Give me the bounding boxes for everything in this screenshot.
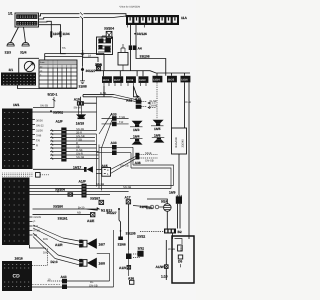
svg-text:B2: B2 [178,230,182,234]
connector 11C/1 [102,76,112,83]
amplifier pin stubs [30,216,42,237]
svg-text:GN-SB: GN-SB [145,160,154,163]
svg-text:1/10: 1/10 [146,206,153,210]
label 33/126 [134,32,147,36]
svg-text:A33: A33 [111,112,117,116]
top bus wire 1 [39,14,127,17]
svg-text:33/302: 33/302 [53,110,63,114]
wire B2 left [126,232,165,236]
DIN lead to CD [30,238,61,285]
svg-text:1104: 1104 [62,32,69,36]
wire B2 down into unit [173,234,190,240]
svg-text:16/9: 16/9 [169,191,176,195]
svg-text:5/1D-1: 5/1D-1 [48,93,58,97]
svg-text:11C/5: 11C/5 [168,78,175,81]
sensor circle symbol [24,61,34,71]
wire ignition to 1104 [39,25,66,54]
tweeter 16/9 [169,191,182,204]
svg-text:A36: A36 [128,276,134,280]
splice ticks on bus [80,12,83,19]
svg-text:16/8: 16/8 [99,262,106,266]
svg-text:31/36: 31/36 [36,130,43,133]
feed wire to 11C row [95,54,150,77]
svg-text:SN-SB: SN-SB [96,183,104,186]
svg-text:16/16: 16/16 [15,256,23,260]
connector 11C/8 [126,76,136,83]
top bus wire 2 [39,16,127,19]
control unit D5 [172,236,194,283]
svg-text:A1/F: A1/F [56,119,63,123]
svg-text:D2:3: D2:3 [51,260,58,264]
theft LED group [119,250,140,284]
svg-text:SN-SB: SN-SB [123,186,131,189]
svg-text:31/66: 31/66 [118,243,126,247]
svg-text:T-R: T-R [119,121,123,124]
amplifier 16/1 lower unit [2,173,33,245]
table 5/1D-1 [39,60,77,97]
svg-text:B+30: B+30 [78,206,85,209]
svg-text:33/204: 33/204 [104,27,114,31]
antenna mast box [118,53,128,66]
wire ignition to ground 31/3 [11,27,19,43]
svg-text:33/261: 33/261 [58,216,68,220]
connector 11C/4 [153,76,163,83]
svg-text:16/1: 16/1 [13,103,20,107]
ground 31/4 [20,42,29,54]
connector A37 [126,98,146,108]
svg-text:3/32: 3/32 [138,247,145,251]
drops below 11C row [104,83,146,86]
labels 23/22 3/32 [137,234,145,256]
wires amp to A1/P [30,186,82,195]
svg-text:GN-SB: GN-SB [120,165,129,168]
svg-text:31/88: 31/88 [79,85,87,89]
connector A1/P [79,180,87,198]
horn 9/24 [146,199,171,211]
svg-text:A32: A32 [126,98,132,102]
svg-text:SN-3B: SN-3B [76,128,84,131]
amplifier box 33/245 [172,128,187,154]
connector 11C/6 [181,76,191,83]
svg-text:11C/1: 11C/1 [103,79,110,82]
svg-text:1:10: 1:10 [161,274,168,278]
wires A1/P to right [87,147,174,194]
svg-text:16/4: 16/4 [133,134,140,138]
connector A15 (tweeter) [74,97,97,115]
svg-text:16/6: 16/6 [154,134,161,138]
svg-text:11C/6: 11C/6 [181,78,188,81]
connector 11C/2 [139,76,149,83]
tweeter 16/17 [33,165,93,172]
wires above table [45,54,104,61]
connector 11C/5 [167,76,177,83]
radio 16/1 [2,103,44,169]
wire ignition to ground 31/4 [24,27,26,43]
svg-text:A1/E: A1/E [87,219,95,223]
svg-text:A17: A17 [125,196,131,200]
ignition switch 1/1 [8,12,39,28]
svg-text:DIN: DIN [43,252,48,255]
connector A33 rear [97,141,134,155]
dashed drop 11C/4 [156,82,158,100]
branch wire with label 18 [83,55,102,71]
svg-text:B3A/CW: B3A/CW [175,137,178,148]
svg-text:33/208: 33/208 [140,54,150,58]
speaker 16/8 with connector [33,233,105,268]
svg-text:CD: CD [13,274,21,280]
connector 33/28 [96,63,103,71]
speaker 16/6 [152,134,165,143]
diagonal bundle to A37 [99,95,136,148]
svg-text:P: P [34,221,36,224]
svg-text:GN-W: GN-W [150,105,158,108]
splice 30/227 [81,67,96,81]
svg-text:NB: NB [77,212,81,215]
connector A1/F [56,119,67,161]
connector A33 front [102,112,129,126]
connector A17 [125,196,131,250]
connector strip 11A [126,15,187,25]
pins below strip 11A [127,25,144,28]
svg-text:A1/R: A1/R [55,243,63,247]
svg-text:*) Not for USA/CDN: *) Not for USA/CDN [119,6,140,9]
antenna amplifier group [97,34,113,55]
svg-text:GN-W: GN-W [34,216,42,219]
speaker 16/4 [130,134,143,144]
svg-text:33/260: 33/260 [53,204,63,208]
svg-text:11C/4: 11C/4 [153,78,160,81]
wire 33/261 + A1/L [33,212,96,223]
connector A4 [129,45,142,50]
svg-text:7/46: 7/46 [36,135,42,138]
wire 11C to A10 arrow [104,86,139,98]
svg-text:SN-SB: SN-SB [76,156,84,159]
svg-text:R: R [36,145,38,148]
svg-text:SN-3B: SN-3B [40,105,48,108]
drops to A4 [131,25,137,45]
connector A1/W [156,240,176,280]
svg-text:33/235: 33/235 [126,232,136,236]
svg-text:7/5: 7/5 [62,47,66,50]
ground 31/88 [79,81,87,89]
wire below fusebox [18,86,78,89]
svg-text:33/245: 33/245 [182,139,185,148]
wire 33/260 [33,204,113,212]
connector 33/267 [90,197,104,205]
svg-text:A15: A15 [74,97,80,101]
svg-text:16/18: 16/18 [76,122,84,126]
svg-text:A38: A38 [135,161,141,165]
svg-text:A1/9: A1/9 [119,266,126,270]
svg-text:B-SB: B-SB [100,92,106,95]
fuse box 3/1 [1,73,36,86]
svg-text:11C/7: 11C/7 [114,79,121,82]
dashed continuation arrows [148,100,157,119]
svg-text:16/17: 16/17 [73,165,81,169]
svg-text:16/7: 16/7 [99,242,106,246]
wires out of A1/F with colour codes [67,128,99,159]
mid wires to A32 [83,95,114,97]
svg-text:10: 10 [48,278,51,281]
svg-text:1/1: 1/1 [8,12,13,16]
svg-text:A1/W: A1/W [156,265,165,269]
tweeter 16/18 [76,114,86,125]
drop 11C/4 to amplifier box [171,82,173,128]
wires to B2 [167,204,180,229]
svg-text:DIN: DIN [43,238,48,241]
svg-text:11A: 11A [181,16,187,20]
antenna unit 33/204 [104,27,114,39]
svg-text:A43: A43 [61,275,67,279]
svg-text:3/1: 3/1 [9,68,14,72]
speaker 16/7 with connector [33,225,105,249]
svg-text:11C/8: 11C/8 [127,79,134,82]
ground clips 31/55 [133,205,163,209]
svg-text:SN-W: SN-W [74,107,82,110]
drop 11C/6 to line [185,82,190,128]
svg-text:W-SB: W-SB [150,100,157,103]
top bus wire 3 [39,21,52,38]
svg-text:W-SB: W-SB [168,248,175,251]
svg-text:T-SB: T-SB [119,116,125,119]
connector 11C/7 [113,76,123,83]
wire below 5/1D-1 [33,97,55,108]
svg-text:): ) [180,264,181,268]
svg-text:18: 18 [88,55,91,58]
svg-text:SN-22: SN-22 [36,125,44,128]
svg-text:GN-SB: GN-SB [89,284,98,287]
svg-text:1105: 1105 [53,32,60,36]
svg-text:31/3: 31/3 [5,51,12,55]
connector A38 [135,152,158,165]
svg-text:33/126: 33/126 [137,32,147,36]
svg-text:31/4: 31/4 [20,51,27,55]
routing right of speakers [97,230,114,287]
svg-text:30/227: 30/227 [86,69,96,73]
svg-text:11C/2: 11C/2 [139,79,146,82]
connector A43 [32,275,114,289]
svg-text:A1/P: A1/P [79,180,87,184]
speaker 16/5 [151,120,164,131]
splice 33/302 [33,110,97,114]
harness routing verticals [97,97,102,191]
svg-text:9/24: 9/24 [161,199,168,203]
wire A4 down [131,50,166,76]
speaker 16/3 [130,121,143,132]
CD changer 16/16 [2,256,32,291]
connector A15 (lower) [96,157,135,177]
microphone B2 [164,229,182,234]
ground 31/3 [5,42,15,54]
svg-text:T/6: T/6 [36,140,40,143]
svg-text:33/206: 33/206 [55,187,65,191]
svg-text:30/36: 30/36 [36,120,43,123]
connector 1105 [50,31,60,37]
wire fuse feed up [19,58,39,72]
far right wire [188,103,190,236]
svg-text:16/5: 16/5 [154,127,161,131]
svg-text:A4: A4 [138,46,142,50]
wires into A1/F from radio [50,129,61,159]
svg-text:16/3: 16/3 [133,128,140,132]
connector 1104 [60,31,70,37]
mid vertical wire 16/14 [81,18,85,67]
splice 33/206 [55,187,73,196]
svg-text:30/227: 30/227 [107,211,117,215]
adapter box at amplifier top [36,173,50,178]
splice 30/227 lower [107,208,126,247]
svg-text:A33: A33 [111,141,117,145]
svg-text:SN-B: SN-B [145,152,152,155]
svg-text:23/22: 23/22 [137,234,145,238]
svg-text:Or-B: Or-B [185,101,191,104]
